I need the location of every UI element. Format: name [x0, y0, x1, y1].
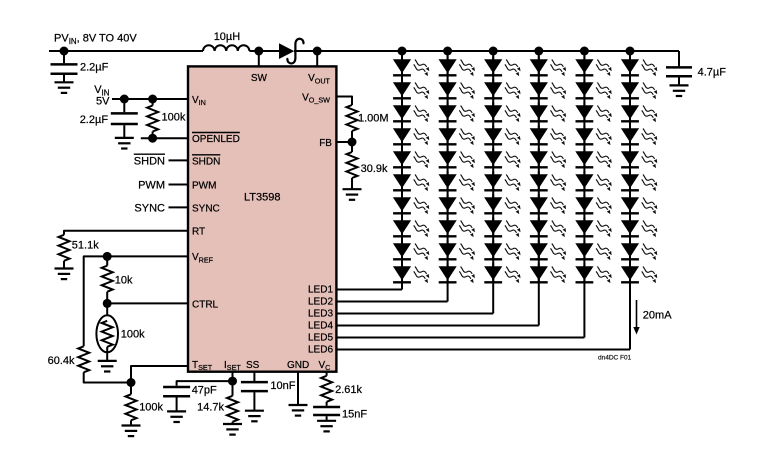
svg-text:RT: RT — [192, 227, 205, 238]
wire R5 to TSET node — [84, 372, 131, 382]
LED string 3 diode 5 — [484, 148, 520, 168]
LED string 2 column wire — [447, 51, 449, 302]
LED string 2 diode 4 — [439, 125, 475, 145]
label 100k (R1) — [162, 112, 186, 124]
diode D1 schottky — [279, 39, 304, 64]
ground C5 — [317, 421, 336, 432]
LED string 3 diode 8 — [484, 217, 520, 237]
LED string 2 diode 7 — [439, 194, 475, 214]
svg-text:LT3598: LT3598 — [244, 192, 281, 204]
LED string 6 diode 10 — [621, 263, 657, 283]
junction VIN/C2 — [120, 95, 129, 104]
label 2.61k — [335, 384, 362, 396]
LED string 1 column wire — [401, 51, 403, 290]
wire R8 to C5 — [326, 402, 328, 406]
wire VIN net — [112, 98, 188, 100]
label 47pF — [192, 384, 217, 396]
wire LED3 net — [336, 313, 493, 315]
ground R2 — [55, 269, 74, 280]
LED string 6 diode 6 — [621, 171, 657, 191]
wire R1 bottom stub — [152, 132, 154, 139]
pin label CTRL — [192, 299, 219, 310]
capacitor C4 10nF — [241, 382, 268, 391]
svg-text:SS: SS — [246, 360, 260, 371]
capacitor C1 2.2µF — [51, 64, 78, 73]
junction rail/string 2 — [443, 47, 452, 56]
pin label ISET — [224, 360, 241, 372]
wire inductor to diode anode — [249, 50, 279, 52]
svg-text:20mA: 20mA — [643, 310, 672, 322]
label 20mA — [643, 310, 672, 322]
svg-text:SHDN: SHDN — [192, 156, 220, 167]
wire R7 to ground — [232, 422, 234, 424]
wire C2 to ground — [123, 125, 125, 138]
wire R7 top stub — [232, 381, 234, 396]
LED string 5 diode 9 — [575, 240, 611, 260]
label 60.4k — [48, 355, 75, 367]
label dn4DC F01 — [598, 355, 632, 362]
LED string 6 diode 7 — [621, 194, 657, 214]
label 10k — [115, 275, 133, 287]
LED string 3 diode 1 — [484, 56, 520, 76]
LED string 6 diode 1 — [621, 56, 657, 76]
LED string 4 diode 5 — [530, 148, 566, 168]
svg-text:SYNC: SYNC — [192, 203, 220, 214]
ground C3 — [167, 411, 186, 422]
label SHDN input — [134, 154, 165, 167]
wire C1 to ground — [63, 75, 65, 82]
photoresistor R4 100k (NTC/photo, ellipse) — [96, 315, 118, 352]
svg-text:100k: 100k — [139, 401, 163, 413]
LED string 5 diode 4 — [575, 125, 611, 145]
label 1.00M — [358, 112, 389, 124]
wire PWM stub — [169, 184, 189, 186]
label 14.7k — [197, 401, 224, 413]
ground C1 — [55, 82, 74, 93]
LED string 4 diode 2 — [530, 79, 566, 99]
IC U1 LT3598 — [188, 66, 336, 371]
resistor R9 1.00M — [347, 105, 358, 131]
wire OPENLED net — [141, 137, 188, 139]
wire VOUT pin stub — [316, 51, 318, 66]
pin label LED6 — [308, 344, 333, 355]
label 100k (R6) — [139, 401, 163, 413]
LED string 3 diode 10 — [484, 263, 520, 283]
LED string 6 diode 5 — [621, 148, 657, 168]
LED string 6 diode 9 — [621, 240, 657, 260]
label 30.9k — [361, 163, 388, 175]
wire VOUT rail — [294, 50, 679, 52]
resistor R3 10k — [102, 266, 113, 292]
svg-text:GND: GND — [287, 360, 309, 371]
LED string 2 diode 6 — [439, 171, 475, 191]
LED string 2 diode 5 — [439, 148, 475, 168]
wire LED4 net — [336, 325, 538, 327]
pin label PWM — [192, 180, 216, 191]
svg-text:4.7µF: 4.7µF — [698, 66, 727, 78]
svg-text:14.7k: 14.7k — [197, 401, 224, 413]
LED string 4 diode 6 — [530, 171, 566, 191]
ground GND pin — [289, 405, 308, 416]
junction VREF/R3 — [103, 252, 112, 261]
resistor R4 zigzag — [102, 321, 113, 347]
svg-text:10µH: 10µH — [214, 31, 241, 43]
pin label VOUT — [308, 73, 330, 85]
LED string 4 diode 9 — [530, 240, 566, 260]
label 2.2µF (C1) — [80, 62, 109, 74]
resistor R1 100k — [147, 106, 158, 132]
wire SHDN stub — [169, 159, 189, 161]
LED string 3 diode 7 — [484, 194, 520, 214]
ground C6 — [670, 85, 689, 96]
capacitor C6 4.7µF — [666, 67, 692, 76]
current arrow 20mA — [633, 300, 639, 335]
pin label LED3 — [308, 308, 333, 319]
pin label LED4 — [308, 320, 333, 331]
wire GND pin stub — [297, 372, 299, 405]
capacitor C2 2.2µF — [111, 113, 138, 124]
junction rail/string 6 — [626, 47, 635, 56]
LED string 1 diode 8 — [393, 217, 429, 237]
pin label LED2 — [308, 296, 333, 307]
svg-text:FB: FB — [319, 138, 332, 149]
label PV_IN, 8V TO 40V — [54, 33, 137, 46]
label 5V — [96, 96, 110, 108]
svg-text:LED2: LED2 — [308, 296, 333, 307]
junction ISET node — [228, 377, 237, 386]
pin label RT — [192, 227, 205, 238]
LED string 5 diode 6 — [575, 171, 611, 191]
LED string 5 diode 7 — [575, 194, 611, 214]
wire LED6 net — [336, 349, 630, 351]
wire ISET to C3 — [177, 381, 233, 386]
wire VO_SW net — [336, 97, 352, 106]
svg-text:SYNC: SYNC — [134, 203, 165, 215]
label 10µH — [214, 31, 241, 43]
pin label VC — [319, 360, 331, 372]
svg-text:47pF: 47pF — [192, 384, 217, 396]
LED string 1 diode 4 — [393, 125, 429, 145]
LED string 2 diode 1 — [439, 56, 475, 76]
LED string 1 diode 1 — [393, 56, 429, 76]
wire C2 stub — [123, 99, 125, 112]
wire ISET pin stub — [232, 372, 234, 381]
wire C4 to ground — [253, 392, 255, 410]
LED string 5 diode 10 — [575, 263, 611, 283]
svg-text:5V: 5V — [96, 96, 110, 108]
svg-text:2.2µF: 2.2µF — [80, 114, 109, 126]
svg-text:10k: 10k — [115, 275, 133, 287]
wire R3 top stub — [106, 256, 108, 265]
LED string 3 diode 3 — [484, 102, 520, 122]
resistor R10 30.9k — [347, 152, 358, 178]
pin label SS — [246, 360, 260, 371]
capacitor C5 15nF — [313, 407, 340, 415]
resistor R5 60.4k — [78, 346, 89, 372]
svg-text:30.9k: 30.9k — [361, 163, 388, 175]
label 2.2µF (C2) — [80, 114, 109, 126]
wire SS pin stub — [253, 372, 255, 381]
LED string 4 diode 4 — [530, 125, 566, 145]
pin label OPENLED — [192, 133, 240, 146]
wire C3 to ground — [176, 398, 178, 412]
junction VOUT node — [313, 47, 322, 56]
LED string 4 diode 1 — [530, 56, 566, 76]
svg-text:2.61k: 2.61k — [335, 384, 362, 396]
wire VC pin stub — [326, 372, 328, 376]
LED string 5 column wire — [583, 51, 585, 338]
LED string 4 diode 10 — [530, 263, 566, 283]
label SYNC input — [134, 203, 165, 215]
LED string 6 diode 4 — [621, 125, 657, 145]
ground R4 — [98, 361, 117, 372]
LED string 3 diode 6 — [484, 171, 520, 191]
junction TSET node — [127, 378, 136, 387]
svg-text:10nF: 10nF — [270, 380, 295, 392]
ground C2 — [115, 138, 134, 149]
ground R10 — [343, 189, 362, 200]
pin label SW — [251, 73, 268, 84]
wire R3 to CTRL node — [106, 292, 108, 316]
LED string 3 column wire — [492, 51, 494, 314]
svg-text:51.1k: 51.1k — [72, 240, 99, 252]
wire LED2 net — [336, 301, 447, 303]
svg-text:LED3: LED3 — [308, 308, 333, 319]
wire R1 top stub — [152, 99, 154, 106]
pin label VO_SW — [302, 92, 330, 104]
ground R7 — [223, 424, 242, 435]
label PWM input — [138, 180, 165, 192]
wire CTRL net — [107, 302, 188, 304]
junction rail/string 3 — [489, 47, 498, 56]
svg-text:LED6: LED6 — [308, 344, 333, 355]
junction rail/string 1 — [398, 47, 407, 56]
svg-text:15nF: 15nF — [342, 409, 367, 421]
junction PVIN/C1 — [60, 47, 69, 56]
wire PVIN rail left segment — [49, 50, 203, 52]
capacitor C3 47pF — [163, 387, 190, 396]
LED string 1 diode 9 — [393, 240, 429, 260]
svg-text:100k: 100k — [162, 112, 186, 124]
svg-text:2.2µF: 2.2µF — [80, 62, 109, 74]
resistor R7 14.7k — [227, 396, 238, 422]
LED string 1 diode 10 — [393, 263, 429, 283]
pin label LED5 — [308, 332, 333, 343]
wire R4 to ground — [106, 347, 108, 361]
LED string 3 diode 4 — [484, 125, 520, 145]
LED string 2 diode 10 — [439, 263, 475, 283]
label 100k (R4) — [121, 329, 145, 341]
LED string 1 diode 6 — [393, 171, 429, 191]
label VIN — [94, 84, 110, 97]
svg-text:LED4: LED4 — [308, 320, 333, 331]
svg-text:LED5: LED5 — [308, 332, 333, 343]
LED string 4 diode 8 — [530, 217, 566, 237]
pin label LED1 — [308, 284, 333, 295]
label LT3598 — [244, 192, 281, 204]
LED string 3 diode 2 — [484, 79, 520, 99]
LED string 6 diode 3 — [621, 102, 657, 122]
junction SW node — [254, 47, 263, 56]
LED string 1 diode 5 — [393, 148, 429, 168]
LED string 4 diode 3 — [530, 102, 566, 122]
svg-text:60.4k: 60.4k — [48, 355, 75, 367]
wire VREF net — [84, 256, 188, 346]
junction CTRL node — [103, 299, 112, 308]
svg-text:PVIN​, 8V TO 40V: PVIN​, 8V TO 40V — [54, 33, 137, 46]
label 15nF — [342, 409, 367, 421]
LED string 2 diode 3 — [439, 102, 475, 122]
junction rail/string 4 — [534, 47, 543, 56]
svg-text:dn4DC F01: dn4DC F01 — [598, 355, 632, 362]
wire C5 to ground — [326, 416, 328, 421]
svg-text:CTRL: CTRL — [192, 299, 219, 310]
pin label VREF — [192, 252, 214, 264]
junction VIN/R1 — [148, 95, 157, 104]
svg-text:SW: SW — [251, 73, 268, 84]
svg-text:SHDN: SHDN — [134, 155, 165, 167]
wire C1 stub — [63, 51, 65, 63]
wire LED5 net — [336, 337, 584, 339]
wire RT net — [64, 231, 188, 235]
LED string 1 diode 3 — [393, 102, 429, 122]
pin label TSET — [192, 360, 213, 372]
wire SYNC stub — [169, 206, 189, 208]
pin label SHDN — [192, 155, 220, 168]
LED string 3 diode 9 — [484, 240, 520, 260]
LED string 6 diode 2 — [621, 79, 657, 99]
LED string 2 diode 8 — [439, 217, 475, 237]
LED string 5 diode 5 — [575, 148, 611, 168]
svg-text:OPENLED: OPENLED — [192, 134, 240, 145]
wire R2 to ground — [63, 261, 65, 269]
wire R9 to FB node — [351, 131, 353, 152]
svg-text:100k: 100k — [121, 329, 145, 341]
junction FB node — [348, 138, 357, 147]
wire C6 stub — [678, 51, 680, 66]
resistor R6 100k — [126, 394, 137, 420]
svg-text:PWM: PWM — [192, 180, 216, 191]
wire C6 to ground — [678, 77, 680, 85]
junction OPENLED/R1 — [148, 134, 157, 143]
LED string 4 diode 7 — [530, 194, 566, 214]
wire SW pin stub — [258, 51, 260, 66]
LED string 6 column wire — [629, 51, 631, 350]
LED string 2 diode 9 — [439, 240, 475, 260]
resistor R8 2.61k — [321, 376, 332, 402]
LED string 2 diode 2 — [439, 79, 475, 99]
LED string 5 diode 2 — [575, 79, 611, 99]
ground C4 — [245, 411, 264, 422]
resistor R2 51.1k — [59, 235, 70, 261]
junction rail/string 5 — [580, 47, 589, 56]
label 4.7µF — [698, 66, 727, 78]
wire R10 to ground — [351, 178, 353, 189]
inductor L1 10µH — [203, 45, 249, 51]
wire R6 top stub — [130, 383, 132, 395]
wire TSET net — [131, 366, 188, 383]
wire FB net — [336, 141, 352, 143]
ground R6 — [122, 426, 141, 437]
pin label GND — [287, 360, 309, 371]
LED string 5 diode 3 — [575, 102, 611, 122]
pin label SYNC — [192, 203, 220, 214]
svg-text:1.00M: 1.00M — [358, 112, 389, 124]
wire LED1 net — [336, 289, 402, 291]
label 51.1k — [72, 240, 99, 252]
pin label FB — [319, 138, 332, 149]
wire R6 to ground — [130, 420, 132, 425]
LED string 1 diode 2 — [393, 79, 429, 99]
pin label VIN — [192, 95, 206, 107]
svg-text:LED1: LED1 — [308, 284, 333, 295]
LED string 6 diode 8 — [621, 217, 657, 237]
label 10nF — [270, 380, 295, 392]
LED string 5 diode 8 — [575, 217, 611, 237]
LED string 1 diode 7 — [393, 194, 429, 214]
LED string 5 diode 1 — [575, 56, 611, 76]
svg-text:PWM: PWM — [138, 180, 165, 192]
LED string 4 column wire — [538, 51, 540, 326]
